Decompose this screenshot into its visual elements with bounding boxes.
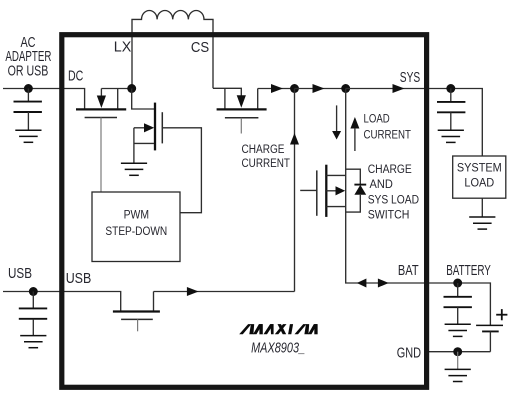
svg-text:USB: USB bbox=[8, 266, 32, 282]
svg-text:CURRENT: CURRENT bbox=[364, 127, 412, 141]
svg-text:BAT: BAT bbox=[398, 263, 419, 279]
arrow BAT bidirectional left head bbox=[357, 279, 367, 288]
transistor Q1 DC input switch bbox=[76, 89, 126, 118]
wire SYS rail segment with arrow bbox=[295, 88, 346, 90]
IC U1 MAX8903 boundary bbox=[62, 35, 427, 388]
node SYS output junction bbox=[446, 84, 455, 93]
label CHARGE AND SYS LOAD SWITCH bbox=[368, 162, 419, 221]
battery BT1 bbox=[476, 325, 503, 351]
svg-text:SYS LOAD: SYS LOAD bbox=[368, 192, 419, 206]
svg-text:CHARGE: CHARGE bbox=[242, 142, 285, 156]
arrow BAT bidirectional right head bbox=[378, 279, 389, 288]
wire SYS pin to system load bbox=[429, 89, 482, 157]
svg-text:LOAD: LOAD bbox=[464, 176, 494, 190]
label battery plus sign bbox=[496, 309, 507, 320]
block PWM STEP-DOWN bbox=[92, 192, 180, 262]
label CHARGE CURRENT bbox=[242, 142, 291, 170]
ground at GND pin bbox=[445, 369, 471, 381]
svg-text:SWITCH: SWITCH bbox=[368, 207, 410, 221]
transistor Q3 charge and SYS load switch bbox=[300, 165, 346, 217]
node USB input junction bbox=[29, 287, 38, 296]
node AC input junction bbox=[24, 84, 33, 93]
label AC ADAPTER OR USB bbox=[5, 35, 51, 80]
wire Q1 gate to PWM block bbox=[100, 118, 102, 193]
wire Q2 output to SYS rail with arrow bbox=[258, 88, 295, 90]
svg-text:LX: LX bbox=[114, 40, 132, 56]
ground at Q5 source bbox=[121, 163, 147, 175]
wire charge current path (SYS junction down to USB switch output) bbox=[294, 89, 296, 292]
arrow charge current direction (up) bbox=[290, 133, 299, 145]
logo MAXIM bbox=[239, 324, 317, 334]
capacitor C4 (battery bypass) bbox=[444, 283, 472, 324]
arrow load current up indicator bbox=[350, 117, 359, 151]
ground at C2 bbox=[20, 336, 46, 348]
arrow load current down indicator bbox=[332, 105, 341, 139]
wire SYS rail to SYS pin with arrow bbox=[346, 88, 429, 90]
wire Q4 output to charge current node with arrow bbox=[154, 291, 295, 293]
block SYSTEM LOAD bbox=[453, 156, 506, 198]
svg-text:MAX8903_: MAX8903_ bbox=[251, 341, 305, 357]
svg-text:SYSTEM: SYSTEM bbox=[457, 161, 502, 175]
svg-text:PWM: PWM bbox=[124, 208, 149, 222]
svg-text:DC: DC bbox=[68, 69, 83, 85]
svg-text:SYS: SYS bbox=[400, 70, 420, 86]
wire system load to ground bbox=[481, 198, 483, 216]
svg-text:CS: CS bbox=[191, 40, 209, 56]
capacitor C1 (DC input bypass) bbox=[14, 89, 42, 130]
svg-text:BATTERY: BATTERY bbox=[446, 263, 491, 279]
wire GND pin to battery ground bbox=[429, 351, 490, 353]
node GND junction bbox=[453, 347, 462, 356]
transistor Q2 charge current sense FET bbox=[213, 88, 267, 133]
svg-text:LOAD: LOAD bbox=[364, 112, 390, 126]
wire AC adapter input to DC pin bbox=[3, 89, 85, 109]
wire GND junction to ground bbox=[457, 352, 459, 369]
svg-text:USB: USB bbox=[66, 271, 92, 287]
wire Q1 drain to LX node bbox=[101, 88, 131, 90]
wire Q5 gate to PWM block bbox=[162, 128, 201, 213]
svg-text:AND: AND bbox=[370, 177, 393, 191]
transistor Q4 USB input switch bbox=[113, 292, 160, 332]
capacitor C2 (USB input bypass) bbox=[19, 292, 47, 336]
svg-text:STEP-DOWN: STEP-DOWN bbox=[105, 224, 167, 238]
diode D1 body diode of Q3 bbox=[346, 169, 367, 212]
wire SYS junction B down to BAT pin bbox=[346, 89, 429, 284]
node SYS rail junction A bbox=[290, 84, 299, 93]
wire USB input to Q4 bbox=[3, 292, 121, 311]
node SYS rail junction B bbox=[341, 84, 350, 93]
ground at C1 bbox=[15, 130, 41, 142]
svg-text:OR USB: OR USB bbox=[8, 63, 49, 79]
ground at C4 bbox=[445, 324, 471, 336]
label LOAD CURRENT bbox=[364, 112, 412, 142]
capacitor C3 (SYS bypass) bbox=[437, 89, 465, 130]
node LX junction bbox=[127, 84, 136, 93]
inductor L1 (LX to CS) bbox=[132, 10, 213, 88]
svg-text:CHARGE: CHARGE bbox=[368, 162, 412, 176]
svg-text:CURRENT: CURRENT bbox=[242, 156, 291, 170]
transistor Q5 synchronous rectifier bbox=[132, 89, 163, 163]
svg-text:GND: GND bbox=[397, 345, 421, 361]
wire BAT pin to battery bbox=[429, 283, 490, 325]
node battery junction bbox=[453, 279, 462, 288]
ground at system load bbox=[469, 217, 495, 229]
ground at C3 bbox=[438, 130, 464, 142]
